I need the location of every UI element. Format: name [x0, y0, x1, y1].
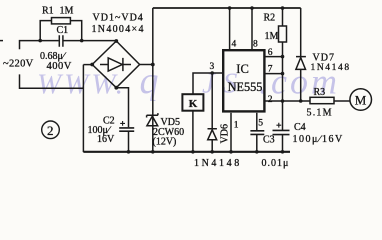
wire: K to ground [192, 111, 194, 152]
svg-text:1N4148: 1N4148 [194, 158, 242, 169]
wire: bridge - output jog to C2 [116, 88, 128, 128]
svg-text:4: 4 [232, 40, 237, 50]
svg-text:C1: C1 [57, 25, 69, 36]
resistor R1 [40, 18, 81, 41]
wire: bottom ground rail [83, 151, 290, 153]
wire: C2 to ground [128, 131, 130, 152]
svg-text:IC: IC [236, 62, 249, 76]
svg-text:7: 7 [268, 65, 273, 75]
svg-text:NE555: NE555 [228, 80, 263, 94]
wire: AC bottom stub [20, 74, 84, 88]
svg-text:VD6: VD6 [220, 124, 231, 143]
svg-text:C3: C3 [263, 135, 275, 146]
svg-text:1M: 1M [60, 6, 74, 17]
figure number circle [42, 121, 60, 139]
IC U1 NE555 [223, 50, 264, 111]
capacitor C4 [273, 123, 290, 135]
wire: pin 8 drop [251, 8, 253, 49]
svg-text:8: 8 [253, 40, 258, 50]
wire: pin 4 drop [229, 8, 231, 49]
svg-text:~220V: ~220V [3, 59, 34, 70]
svg-text:0.01μ: 0.01μ [262, 158, 290, 169]
wire: bridge + output to V+ line [140, 64, 153, 66]
diode VD6 [208, 73, 217, 152]
zener VD5 [147, 113, 158, 126]
wire: left edge tick [0, 40, 3, 42]
wire: pin 5 drop [256, 113, 258, 131]
svg-text:(12V): (12V) [153, 137, 177, 148]
capacitor C2 [119, 121, 134, 131]
wire: top V+ rail [153, 7, 301, 9]
svg-text:R2: R2 [264, 13, 276, 24]
svg-text:1: 1 [234, 121, 239, 131]
motor M [350, 89, 372, 111]
svg-text:1M: 1M [265, 31, 279, 42]
wire: pin 3 stub to K [193, 73, 222, 94]
wire: R2 line to pins 6 7 and output [282, 57, 284, 130]
wire: pin 1 to ground [230, 113, 232, 152]
svg-text:5: 5 [258, 118, 263, 128]
wire: top rail segment C1 right to bridge top [63, 40, 116, 42]
watermark [37, 60, 340, 102]
wire: pin 7 stub [266, 73, 283, 75]
wire: C4 to ground [282, 135, 284, 152]
resistor R2 [279, 8, 287, 57]
wire: AC top stub [20, 41, 59, 50]
svg-text:q: q [140, 60, 159, 102]
svg-text:5.1M: 5.1M [307, 108, 333, 119]
relay contact K [182, 94, 203, 111]
diode VD7 [296, 8, 306, 101]
capacitor C3 [250, 131, 264, 135]
svg-text:1N4148: 1N4148 [311, 63, 351, 73]
svg-text:400V: 400V [47, 61, 72, 72]
capacitor C1 [59, 35, 63, 47]
svg-text:6: 6 [268, 48, 273, 58]
svg-text:R1: R1 [42, 6, 54, 17]
wire: left vertical bridge AC2 to ground rail [82, 65, 84, 153]
bridge rectifier VD1~VD4 [92, 41, 139, 88]
svg-text:R3: R3 [314, 87, 326, 98]
svg-text:2: 2 [268, 95, 273, 105]
svg-text:C4: C4 [294, 122, 306, 133]
wire: bridge left corner lead [83, 64, 92, 66]
svg-text:3: 3 [210, 62, 215, 72]
svg-text:K: K [189, 98, 198, 110]
wire: pin 2 output rail [266, 100, 350, 102]
svg-text:2: 2 [47, 123, 54, 138]
svg-text:100μ∕16V: 100μ∕16V [293, 134, 344, 145]
svg-text:1N4004×4: 1N4004×4 [92, 24, 145, 35]
resistor R3 [310, 97, 334, 103]
svg-text:VD1~VD4: VD1~VD4 [93, 13, 144, 24]
wire: C3 to ground [256, 134, 258, 151]
wire: pin 6 stub [266, 56, 283, 58]
svg-text:M: M [355, 92, 367, 107]
wire: V+ vertical line [152, 8, 154, 152]
svg-text:16V: 16V [97, 134, 115, 145]
